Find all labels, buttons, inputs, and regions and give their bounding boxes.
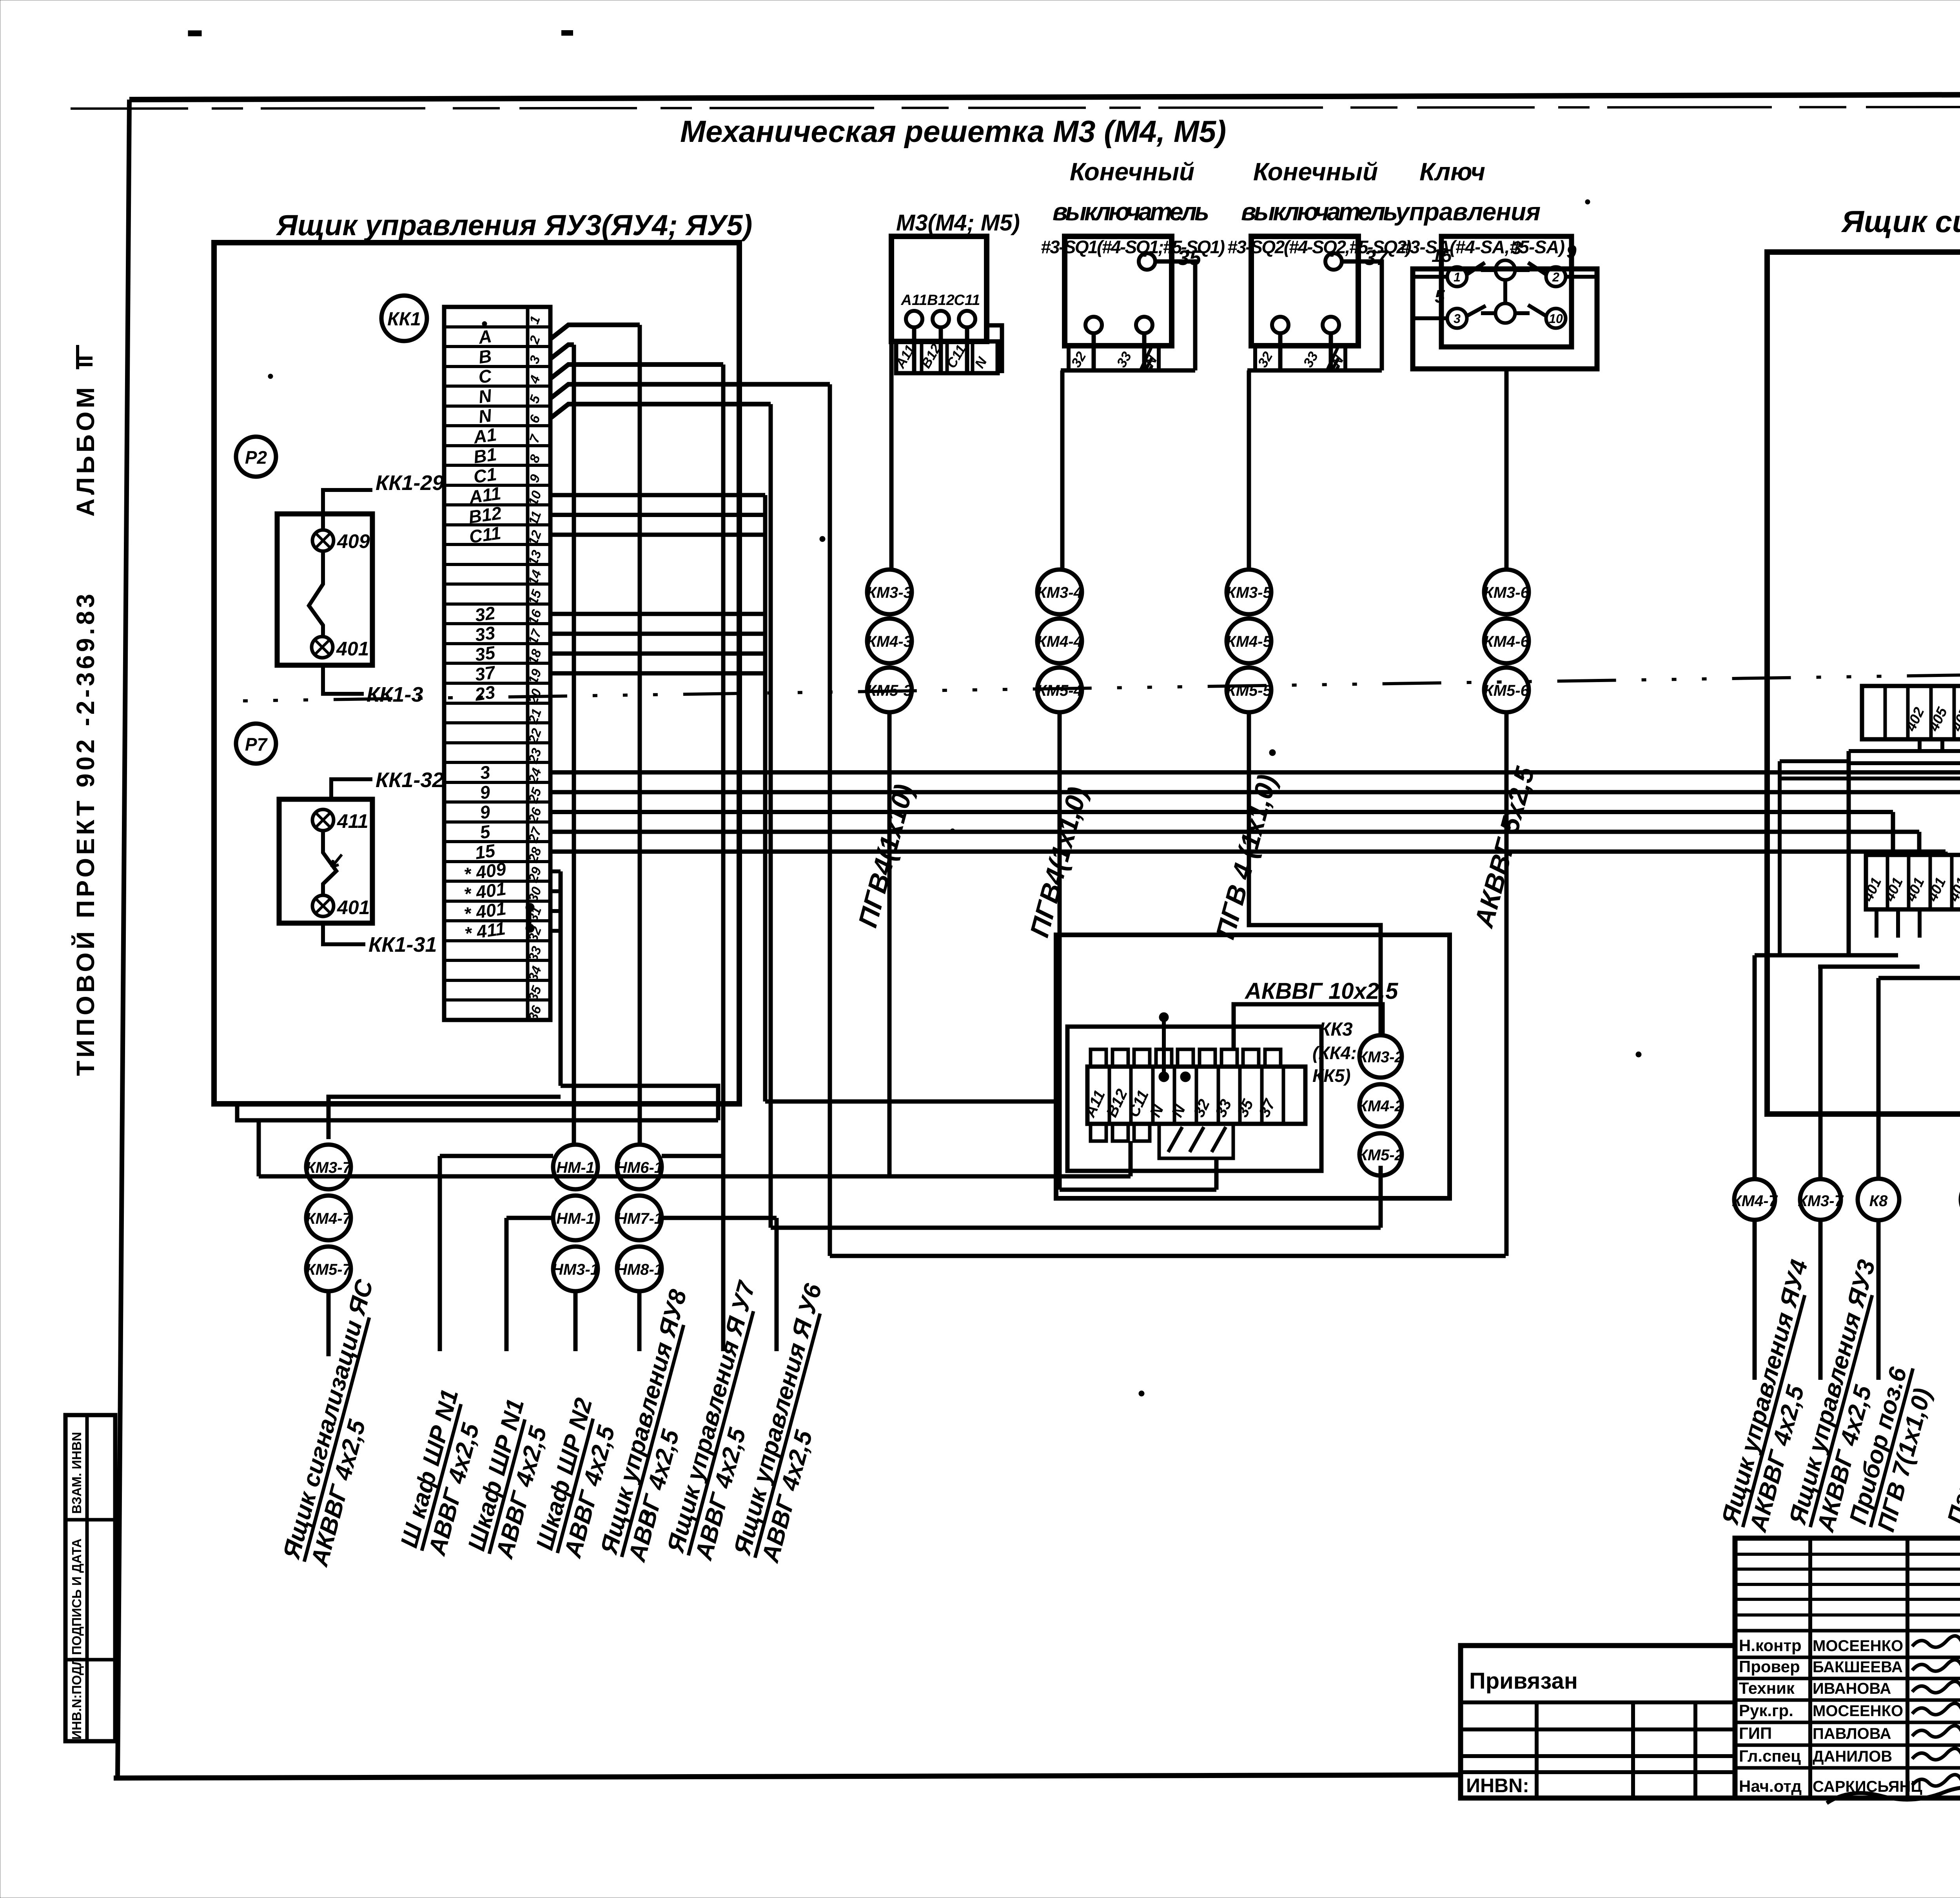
svg-text:Рук.гр.: Рук.гр. (1739, 1701, 1793, 1720)
svg-text:(КК4:: (КК4: (1312, 1043, 1357, 1063)
svg-text:ДАНИЛОВ: ДАНИЛОВ (1813, 1748, 1892, 1765)
svg-text:АКВВГ 10х2,5: АКВВГ 10х2,5 (1244, 978, 1398, 1004)
svg-text:МОСЕЕНКО: МОСЕЕНКО (1813, 1702, 1903, 1720)
svg-text:23: 23 (473, 682, 496, 705)
svg-text:НМ-1: НМ-1 (556, 1159, 595, 1176)
svg-text:ВЗАМ. ИНВN: ВЗАМ. ИНВN (69, 1432, 84, 1514)
svg-text:НМ7-1: НМ7-1 (616, 1210, 663, 1227)
svg-text:КМ3-4: КМ3-4 (1037, 584, 1082, 601)
svg-text:411: 411 (337, 810, 368, 832)
svg-text:Р2: Р2 (245, 447, 267, 468)
svg-text:Конечный: Конечный (1253, 158, 1378, 186)
svg-text:КК1: КК1 (387, 309, 421, 330)
svg-text:КМ3-5: КМ3-5 (1226, 584, 1272, 601)
svg-text:КМ3-7: КМ3-7 (1798, 1192, 1844, 1210)
svg-text:10: 10 (1549, 312, 1563, 326)
svg-text:НМ8-1: НМ8-1 (616, 1261, 663, 1278)
svg-text:М3(М4; М5): М3(М4; М5) (896, 210, 1020, 236)
svg-text:КМ5-4: КМ5-4 (1037, 682, 1082, 699)
svg-text:КМ4-3: КМ4-3 (867, 633, 912, 650)
svg-text:Ящик управления ЯУ3(ЯУ4; ЯУ5): Ящик управления ЯУ3(ЯУ4; ЯУ5) (276, 209, 752, 241)
svg-text:5: 5 (1435, 286, 1445, 307)
svg-text:КМ3-2: КМ3-2 (1358, 1049, 1403, 1066)
svg-text:выключатель: выключатель (1241, 198, 1398, 226)
svg-text:КМ4-7: КМ4-7 (306, 1210, 352, 1227)
svg-text:9: 9 (1566, 241, 1577, 262)
svg-text:В12: В12 (927, 292, 955, 308)
svg-text:#3-SQ1(#4-SQ1;#5-SQ1): #3-SQ1(#4-SQ1;#5-SQ1) (1041, 237, 1225, 257)
svg-text:КМ5-7: КМ5-7 (306, 1261, 352, 1278)
svg-text:ИНВ.N:ПОДЛ: ИНВ.N:ПОДЛ (69, 1657, 84, 1740)
svg-text:ПАВЛОВА: ПАВЛОВА (1813, 1725, 1891, 1742)
svg-text:КМ5-2: КМ5-2 (1358, 1147, 1403, 1164)
svg-text:Провер: Провер (1739, 1657, 1800, 1676)
svg-text:3: 3 (1454, 312, 1461, 326)
svg-text:А11: А11 (901, 292, 927, 308)
svg-text:Нач.отд: Нач.отд (1739, 1777, 1802, 1795)
svg-text:КМ4-2: КМ4-2 (1358, 1098, 1403, 1115)
svg-text:А: А (477, 326, 493, 348)
svg-text:II: II (72, 355, 98, 368)
svg-text:Ключ: Ключ (1419, 158, 1485, 186)
svg-text:КМ4-6: КМ4-6 (1484, 633, 1529, 650)
svg-text:КМ4-7: КМ4-7 (1732, 1192, 1778, 1210)
svg-text:выключатель: выключатель (1053, 198, 1209, 226)
svg-text:3: 3 (1512, 238, 1522, 258)
svg-text:1: 1 (1454, 270, 1461, 284)
svg-text:Ящик сигнализации ЯС: Ящик сигнализации ЯС (1841, 204, 1960, 239)
svg-text:КМ3-3: КМ3-3 (867, 584, 912, 601)
svg-text:КК3: КК3 (1319, 1019, 1353, 1040)
svg-text:ГИП: ГИП (1739, 1724, 1772, 1742)
svg-text:К8: К8 (1869, 1192, 1888, 1210)
svg-text:КК5): КК5) (1312, 1065, 1350, 1086)
svg-text:Гл.спец: Гл.спец (1739, 1747, 1801, 1765)
svg-text:15: 15 (1432, 245, 1452, 266)
svg-text:КМ4-4: КМ4-4 (1037, 633, 1082, 650)
svg-text:КМ4-5: КМ4-5 (1226, 633, 1272, 650)
svg-text:КК1-3: КК1-3 (367, 683, 423, 706)
svg-text:НМ6-1: НМ6-1 (616, 1159, 663, 1176)
svg-text:ИВАНОВА: ИВАНОВА (1813, 1680, 1891, 1697)
svg-text:КК1-31: КК1-31 (368, 933, 437, 956)
svg-text:Н.контр: Н.контр (1739, 1636, 1802, 1655)
svg-text:Техник: Техник (1739, 1679, 1795, 1697)
svg-text:Р7: Р7 (245, 734, 268, 755)
svg-text:НМ3-1: НМ3-1 (552, 1261, 599, 1278)
svg-text:37: 37 (474, 662, 497, 685)
svg-text:С11: С11 (954, 292, 980, 308)
svg-text:#3-SQ2(#4-SQ2,#5-SQ2): #3-SQ2(#4-SQ2,#5-SQ2) (1227, 237, 1412, 257)
svg-text:2: 2 (1552, 270, 1559, 284)
svg-text:КК1-32: КК1-32 (376, 768, 444, 792)
svg-text:409: 409 (337, 530, 370, 552)
svg-text:КМ5-6: КМ5-6 (1484, 682, 1529, 699)
svg-text:Привязан: Привязан (1469, 1668, 1578, 1694)
svg-text:Конечный: Конечный (1070, 158, 1194, 186)
svg-text:КМ3-6: КМ3-6 (1484, 584, 1529, 601)
svg-text:#3-SA(#4-SA,#5-SA): #3-SA(#4-SA,#5-SA) (1400, 237, 1565, 257)
svg-text:НМ-1: НМ-1 (556, 1210, 595, 1227)
svg-text:МОСЕЕНКО: МОСЕЕНКО (1813, 1637, 1903, 1655)
svg-text:401: 401 (337, 896, 370, 918)
svg-text:ИНВN:: ИНВN: (1466, 1775, 1529, 1796)
svg-text:КМ3-7: КМ3-7 (306, 1159, 352, 1176)
svg-text:БАКШЕЕВА: БАКШЕЕВА (1813, 1658, 1903, 1676)
svg-text:Механическая решетка М3: Механическая решетка М3 (М4, М5) (680, 114, 1226, 149)
svg-text:ТИПОВОЙ ПРОЕКТ 902 -2-369.83: ТИПОВОЙ ПРОЕКТ 902 -2-369.83 (71, 594, 100, 1076)
svg-text:ПОДПИСЬ И ДАТА: ПОДПИСЬ И ДАТА (69, 1539, 84, 1655)
svg-text:401: 401 (336, 638, 369, 660)
svg-text:управления: управления (1394, 198, 1541, 226)
svg-text:КК1-29: КК1-29 (376, 471, 444, 495)
